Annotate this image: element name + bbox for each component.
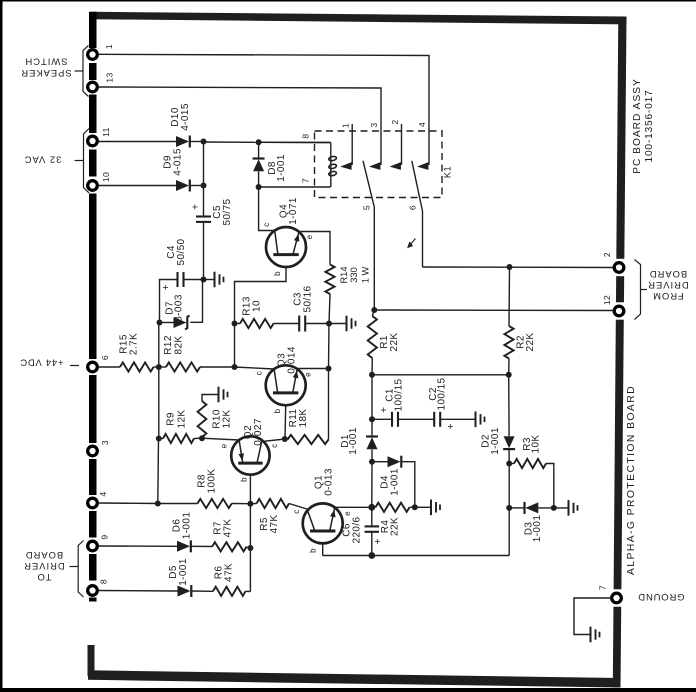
wire C5 to node C bbox=[203, 222, 205, 279]
svg-text:SPEAKER: SPEAKER bbox=[20, 68, 71, 79]
wire R7 to node bbox=[247, 547, 251, 548]
svg-text:GROUND: GROUND bbox=[637, 591, 684, 602]
svg-text:0-014: 0-014 bbox=[287, 346, 298, 374]
svg-text:2: 2 bbox=[602, 252, 612, 257]
wire R12 to node F bbox=[200, 366, 235, 368]
wire R13 to C3 bbox=[274, 323, 300, 325]
R10 top to ground bbox=[202, 395, 218, 402]
svg-text:9: 9 bbox=[100, 534, 110, 539]
relay armature 6 bbox=[412, 161, 423, 211]
node B junction bbox=[201, 183, 207, 189]
wire D1 node to Q1e node bbox=[371, 462, 373, 508]
node Q2 emitter junction bbox=[199, 435, 205, 441]
wire Q2 base bbox=[249, 475, 251, 504]
node Q3 emitter junction bbox=[326, 366, 332, 372]
svg-text:0-013: 0-013 bbox=[324, 468, 335, 496]
resistor R8 bbox=[198, 499, 232, 508]
svg-text:4: 4 bbox=[417, 122, 427, 127]
wire terminal 8 bbox=[99, 590, 178, 593]
bracket from driver board bbox=[635, 260, 641, 320]
wire R4 to ground node bbox=[410, 506, 415, 508]
ground at D3 bbox=[568, 500, 570, 516]
node D3 right junction bbox=[551, 505, 557, 511]
diode D4 bbox=[372, 461, 388, 463]
transistor Q2 bbox=[231, 436, 269, 474]
wire Q3e node down to R11 bbox=[328, 369, 330, 440]
wire node A to D8/coil top bbox=[204, 141, 259, 143]
terminal 3 bbox=[88, 446, 98, 456]
node G junction bbox=[232, 321, 238, 327]
svg-text:22K: 22K bbox=[525, 333, 536, 352]
zener diode D7 bbox=[160, 322, 174, 324]
terminal 6 bbox=[88, 362, 98, 372]
node C junction bbox=[201, 277, 207, 283]
node C1 junction bbox=[369, 416, 375, 422]
node R7 junction bbox=[247, 545, 253, 551]
wire R3 right down bbox=[546, 464, 554, 508]
right bar terminal gaps bbox=[609, 259, 629, 276]
resistor R15 bbox=[120, 362, 154, 371]
resistor R11 bbox=[288, 435, 329, 444]
relay pin 3 contact bbox=[369, 162, 380, 170]
scan edge top bbox=[0, 0, 696, 2]
svg-text:BOARD: BOARD bbox=[25, 550, 63, 561]
wire terminal 7 to ground bbox=[574, 598, 611, 635]
wire terminal 2 bbox=[423, 266, 614, 269]
node A junction bbox=[201, 139, 207, 145]
node D8 bottom junction bbox=[256, 184, 262, 190]
wire Q2 collector bbox=[262, 439, 285, 442]
svg-text:DRIVER: DRIVER bbox=[647, 280, 688, 291]
wire Q2 emitter bbox=[202, 438, 239, 440]
svg-text:11: 11 bbox=[101, 127, 111, 137]
node Q2 base junction bbox=[247, 501, 253, 507]
svg-text:12K: 12K bbox=[177, 410, 188, 429]
svg-text:100/15: 100/15 bbox=[437, 377, 448, 410]
terminal 9 bbox=[88, 541, 98, 551]
resistor R4 bbox=[376, 503, 410, 512]
svg-text:b: b bbox=[309, 548, 318, 553]
svg-text:b: b bbox=[240, 477, 249, 482]
svg-text:1 W: 1 W bbox=[361, 267, 371, 284]
wire node A to node B to C5 bbox=[203, 142, 205, 217]
wire Q4 base bbox=[235, 267, 287, 323]
svg-text:1-001: 1-001 bbox=[182, 512, 193, 540]
resistor R2 bbox=[504, 326, 513, 359]
svg-text:50/50: 50/50 bbox=[176, 238, 187, 265]
wire D7 cathode up to node C bbox=[190, 280, 202, 323]
terminal 1 bbox=[88, 50, 98, 60]
direction arrow mark bbox=[409, 239, 416, 247]
svg-text:100-1356-017: 100-1356-017 bbox=[644, 89, 655, 162]
svg-text:4: 4 bbox=[98, 491, 108, 496]
ground at C2 bbox=[475, 412, 477, 428]
svg-text:1-001: 1-001 bbox=[178, 558, 189, 586]
svg-text:10K: 10K bbox=[531, 435, 542, 454]
wire D4 to R4 node bbox=[401, 462, 415, 508]
bracket to driver board bbox=[78, 541, 83, 598]
transistor Q1 bbox=[303, 503, 343, 543]
terminal 8 bbox=[88, 586, 98, 596]
wire terminal 1 to relay pin 4 bbox=[99, 54, 430, 165]
wire R5 to Q1 collector bbox=[289, 504, 307, 510]
svg-text:18K: 18K bbox=[298, 409, 309, 428]
svg-text:2: 2 bbox=[390, 119, 400, 124]
wire terminal 6 to R15 bbox=[99, 366, 121, 368]
board border top bar bbox=[91, 12, 627, 25]
wire terminal 9 bbox=[99, 545, 178, 547]
ground at node H bbox=[329, 323, 346, 325]
resistor R3 bbox=[514, 459, 546, 468]
terminal 13 bbox=[88, 82, 98, 92]
svg-text:100K: 100K bbox=[207, 469, 218, 494]
node H junction bbox=[326, 321, 332, 327]
svg-text:c: c bbox=[292, 509, 301, 513]
svg-text:6: 6 bbox=[408, 205, 418, 210]
node D8 top junction bbox=[256, 139, 262, 145]
svg-text:8: 8 bbox=[99, 579, 109, 584]
svg-text:32 VAC: 32 VAC bbox=[24, 155, 62, 166]
svg-text:4-015: 4-015 bbox=[173, 148, 184, 176]
wire C3 to node H bbox=[305, 323, 329, 325]
svg-text:1-001: 1-001 bbox=[348, 427, 359, 455]
svg-text:+: + bbox=[379, 407, 390, 413]
svg-text:47K: 47K bbox=[223, 519, 234, 538]
wire Q1 emitter bbox=[335, 506, 372, 508]
diode D8 bbox=[253, 159, 264, 171]
node C6 bottom junction bbox=[368, 552, 375, 559]
node D2 bottom junction bbox=[506, 461, 512, 467]
wire Q1 base bbox=[322, 543, 324, 555]
resistor R10 bbox=[198, 401, 207, 437]
wire +44 rail vertical bbox=[158, 323, 160, 368]
svg-text:1-001: 1-001 bbox=[276, 154, 287, 182]
wire D3 node to base rail bbox=[508, 508, 510, 556]
node D3 left junction bbox=[506, 505, 512, 511]
svg-text:3: 3 bbox=[100, 440, 110, 445]
relay pin 2 stub bbox=[401, 124, 403, 165]
svg-text:e: e bbox=[220, 443, 229, 448]
node rail right junction bbox=[506, 372, 512, 378]
svg-text:ALPHA-G PROTECTION BOARD: ALPHA-G PROTECTION BOARD bbox=[626, 385, 637, 575]
board border bottom bar bbox=[88, 670, 620, 687]
terminal 2 bbox=[614, 263, 624, 273]
diode D3 bbox=[509, 507, 524, 509]
wire C2 to ground bbox=[441, 418, 475, 420]
svg-text:1-001: 1-001 bbox=[532, 515, 543, 543]
svg-text:8: 8 bbox=[301, 133, 311, 138]
node rail left junction bbox=[369, 372, 375, 378]
wire coil bottom to D8 bbox=[259, 186, 331, 188]
svg-text:5: 5 bbox=[362, 205, 372, 210]
diode D1 bbox=[371, 419, 373, 436]
node R4 right junction bbox=[412, 504, 418, 510]
scan edge left bbox=[0, 0, 3, 692]
node Q2 collector junction bbox=[282, 436, 288, 442]
diode D9 bbox=[176, 180, 189, 191]
resistor R14 bbox=[325, 265, 334, 295]
svg-text:7: 7 bbox=[301, 178, 311, 183]
svg-text:2.7K: 2.7K bbox=[129, 333, 140, 355]
wire D3 to ground bbox=[538, 507, 567, 509]
bracket speaker switch bbox=[83, 46, 89, 97]
diode D2 bbox=[508, 375, 510, 436]
wire D5 to R6 bbox=[191, 590, 213, 592]
svg-text:22K: 22K bbox=[390, 517, 401, 536]
svg-text:R14: R14 bbox=[339, 266, 349, 283]
wire R14 to node H bbox=[329, 294, 330, 324]
resistor R12 bbox=[166, 362, 200, 371]
diode D10 bbox=[176, 136, 189, 147]
capacitor C3 bbox=[298, 316, 300, 332]
board border bottom-left corner bar bbox=[88, 645, 95, 676]
wire Q4 collector bbox=[259, 187, 275, 231]
svg-text:100/15: 100/15 bbox=[394, 378, 405, 411]
terminal 12 bbox=[614, 306, 624, 316]
svg-text:220/6: 220/6 bbox=[352, 516, 363, 543]
svg-text:R9: R9 bbox=[166, 412, 177, 426]
wire Q3 collector bbox=[235, 367, 275, 369]
terminal 7 bbox=[612, 593, 622, 603]
svg-text:1-071: 1-071 bbox=[288, 197, 299, 225]
terminal 4 bbox=[88, 498, 98, 508]
capacitor C1 bbox=[372, 418, 392, 420]
svg-text:330: 330 bbox=[349, 267, 359, 283]
svg-text:50/16: 50/16 bbox=[303, 285, 314, 312]
wire terminal 11 to D10 bbox=[99, 141, 177, 143]
svg-text:50/75: 50/75 bbox=[222, 198, 233, 225]
svg-text:4-015: 4-015 bbox=[180, 103, 191, 131]
svg-text:e: e bbox=[343, 511, 352, 516]
wire C1 to C2 bbox=[398, 418, 434, 420]
diode D6 bbox=[177, 541, 190, 552]
svg-text:+: + bbox=[161, 284, 172, 290]
svg-text:10: 10 bbox=[101, 172, 111, 182]
svg-text:+44 VDC: +44 VDC bbox=[20, 358, 64, 369]
wire base rail bbox=[323, 555, 510, 557]
wire R9 to Q2 emitter node bbox=[194, 437, 202, 439]
svg-text:b: b bbox=[273, 408, 282, 413]
wire relay pin6 down bbox=[422, 211, 424, 267]
wire D1 top bbox=[371, 375, 373, 420]
wire Q2 base node down bbox=[249, 504, 251, 592]
svg-text:7: 7 bbox=[598, 585, 608, 590]
svg-text:10: 10 bbox=[252, 300, 263, 312]
node R2 top junction bbox=[507, 264, 513, 270]
resistor R13 bbox=[235, 323, 241, 325]
wire Q3 base bbox=[284, 405, 287, 439]
node R9 left junction bbox=[156, 436, 162, 442]
svg-text:PC BOARD ASSY: PC BOARD ASSY bbox=[632, 78, 643, 174]
capacitor C2 bbox=[433, 412, 435, 427]
capacitor C4 bbox=[184, 279, 204, 281]
svg-text:+: + bbox=[373, 538, 384, 544]
svg-text:1-001: 1-001 bbox=[390, 468, 401, 496]
svg-text:1-001: 1-001 bbox=[490, 427, 501, 455]
resistor R5 bbox=[257, 499, 290, 508]
relay coil bbox=[259, 141, 331, 143]
relay armature 5 bbox=[363, 161, 374, 207]
wire to R8 bbox=[158, 503, 198, 505]
svg-text:47K: 47K bbox=[224, 563, 235, 582]
svg-text:47K: 47K bbox=[269, 515, 280, 534]
resistor R7 bbox=[212, 542, 247, 551]
wire C4 to node D bbox=[160, 280, 178, 323]
node R1 top junction bbox=[371, 307, 377, 313]
left terminal strip bar bbox=[89, 12, 97, 48]
svg-text:13: 13 bbox=[105, 72, 115, 82]
wire R2 top bbox=[508, 267, 511, 326]
terminal 11 bbox=[88, 136, 98, 146]
svg-text:DRIVER: DRIVER bbox=[23, 561, 64, 572]
wire D9 to node B bbox=[190, 185, 204, 187]
wire terminal 4 bbox=[99, 502, 158, 505]
svg-text:TO: TO bbox=[37, 572, 52, 583]
diode D5 bbox=[178, 586, 191, 597]
wire D2 node down bbox=[508, 464, 510, 508]
wire terminal 13 to relay pin 3 bbox=[99, 87, 382, 165]
capacitor C6 bbox=[371, 507, 373, 526]
svg-text:1: 1 bbox=[341, 123, 351, 128]
wire R15 to node E bbox=[154, 366, 159, 368]
node F junction bbox=[232, 364, 238, 370]
resistor R1 bbox=[372, 310, 374, 316]
scan edge bottom bbox=[0, 688, 696, 692]
terminal 10 bbox=[88, 181, 98, 191]
svg-text:FROM: FROM bbox=[652, 291, 684, 302]
wire R8 to Q2 base node bbox=[232, 503, 251, 505]
resistor R6 bbox=[213, 587, 246, 596]
svg-text:e: e bbox=[304, 372, 313, 377]
svg-text:3: 3 bbox=[369, 122, 379, 127]
svg-text:BOARD: BOARD bbox=[649, 269, 687, 280]
svg-text:+: + bbox=[446, 423, 457, 429]
node E junction bbox=[156, 364, 162, 370]
node Q1 emitter junction bbox=[368, 504, 375, 511]
capacitor C5 bbox=[196, 215, 211, 217]
ground at terminal 7 bbox=[590, 627, 592, 643]
wire D6 to R7 bbox=[191, 545, 212, 547]
node D1 bottom junction bbox=[369, 459, 375, 465]
wire relay pin5 to terminal 12 bbox=[373, 207, 375, 310]
svg-text:+: + bbox=[191, 204, 202, 210]
wire Q4 emitter to R14 bbox=[299, 232, 330, 265]
transistor Q4 bbox=[266, 227, 306, 267]
node D junction bbox=[157, 320, 163, 326]
ground at node C bbox=[204, 279, 214, 281]
relay pin 4 contact bbox=[417, 162, 428, 170]
resistor R9 bbox=[159, 438, 163, 440]
svg-text:3-003: 3-003 bbox=[174, 294, 185, 322]
wire Q3 emitter bbox=[297, 368, 328, 370]
svg-text:c: c bbox=[255, 371, 264, 375]
svg-text:R12: R12 bbox=[163, 335, 174, 355]
svg-text:82K: 82K bbox=[174, 336, 185, 355]
wire node H to Q3 emitter node bbox=[328, 324, 331, 369]
wire node G to node F bbox=[234, 324, 236, 368]
bracket 32 vac bbox=[84, 129, 90, 194]
svg-text:c: c bbox=[270, 443, 279, 447]
svg-text:1: 1 bbox=[104, 44, 114, 49]
node +44 rail bottom junction bbox=[155, 501, 161, 507]
relay K1 box bbox=[315, 131, 443, 198]
wire collector rail bbox=[372, 374, 509, 376]
svg-text:22K: 22K bbox=[389, 333, 400, 352]
svg-text:12K: 12K bbox=[222, 410, 233, 429]
relay pin 1 stub bbox=[351, 124, 353, 165]
svg-text:b: b bbox=[273, 271, 282, 276]
svg-text:6: 6 bbox=[100, 355, 110, 360]
svg-text:SWITCH: SWITCH bbox=[25, 57, 68, 68]
svg-text:e: e bbox=[305, 234, 314, 239]
wire R6 right end up bbox=[246, 590, 251, 592]
svg-text:c: c bbox=[262, 222, 271, 226]
svg-text:12: 12 bbox=[602, 295, 612, 305]
ground at R4 bbox=[415, 506, 430, 508]
board border right bar bbox=[613, 17, 627, 688]
wire D10 to node A bbox=[190, 141, 204, 143]
wire terminal 12 bbox=[374, 309, 613, 312]
svg-text:K1: K1 bbox=[443, 166, 453, 178]
wire terminal 10 to D9 bbox=[99, 185, 177, 187]
transistor Q3 bbox=[266, 365, 306, 405]
